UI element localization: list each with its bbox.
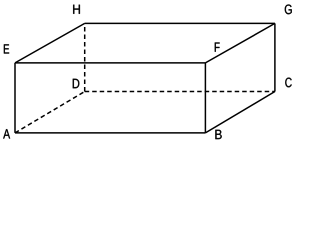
vertex label E [4,44,9,53]
edge AB (front bottom) [15,132,205,134]
vertex label F [215,43,220,52]
vertex label C [285,78,291,88]
edge EF (front top) [15,62,205,64]
edge FG (top right depth) [205,23,275,63]
vertex label D [73,79,80,88]
edge DH hidden (dashed vertical) [84,23,86,91]
edge HG (back top) [85,22,275,24]
vertex label H [73,5,80,14]
edge BF (front right vertical) [204,63,206,133]
edge EH (top left depth) [15,23,85,63]
edge DC hidden (dashed horizontal) [85,91,275,93]
vertex label B [215,130,221,139]
edge AE (front left vertical) [14,63,16,133]
edge BC (bottom right depth) [205,92,275,133]
edge AD hidden (dashed diagonal) [15,92,85,133]
vertex label G [285,5,292,15]
edge GC (back right vertical) [274,23,276,91]
vertex label A [3,129,10,138]
